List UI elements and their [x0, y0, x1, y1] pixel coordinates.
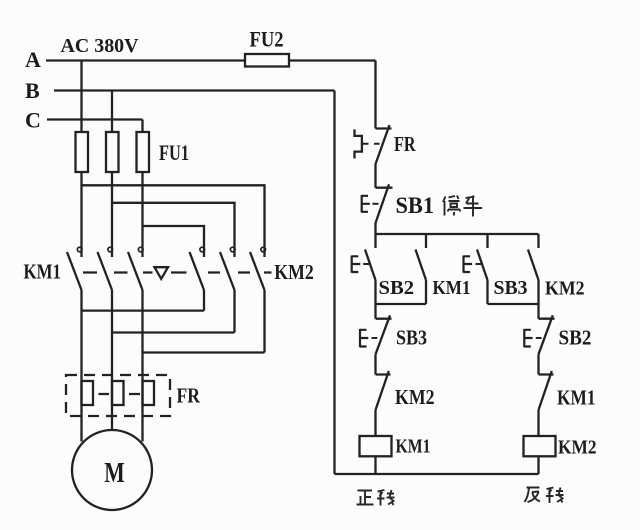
svg-text:KM1: KM1	[557, 386, 596, 410]
svg-text:FU2: FU2	[250, 26, 284, 51]
wire phase 3 contact to motor	[141, 290, 143, 442]
label fanzhuan (reverse) hanzi	[525, 488, 564, 504]
wire bottom rail	[335, 473, 539, 475]
wire SB3 to KM2 interlock	[374, 354, 376, 374]
svg-text:SB3: SB3	[396, 326, 427, 350]
value label SB1	[396, 193, 435, 218]
wire crossover phase2 to KM2 contact 5	[112, 203, 235, 257]
wire control top rail	[376, 233, 539, 235]
svg-text:KM1: KM1	[433, 277, 471, 299]
value label KM2 aux	[545, 278, 585, 300]
wire KM2 contact 6 bottom	[263, 290, 265, 353]
wire phase C drop to FU1	[141, 120, 143, 133]
contactor KM2 main contact 6	[250, 247, 266, 290]
motor M circle	[72, 430, 152, 510]
thermal relay FR inner dashes	[99, 393, 141, 395]
wire KM1 aux drop	[425, 234, 427, 248]
svg-text:KM2: KM2	[558, 437, 597, 459]
svg-text:KM1: KM1	[396, 436, 431, 458]
wire phase A drop to FU1	[80, 61, 82, 133]
contact KM2 interlock (NC)	[376, 371, 391, 410]
pushbutton SB3 (NC) left branch	[360, 315, 392, 354]
contactor KM2 main contact 4	[190, 247, 205, 290]
value label SB2	[379, 277, 415, 299]
node C phase label	[25, 108, 41, 133]
svg-text:FR: FR	[394, 132, 416, 156]
fuse FU1 element 3	[137, 132, 150, 172]
node B phase label	[25, 78, 40, 103]
value label SB3	[494, 277, 528, 299]
fuse FU1 element 1	[76, 132, 89, 172]
wire left branch down	[374, 304, 376, 319]
svg-text:AC 380V: AC 380V	[61, 35, 139, 57]
value label AC 380V	[61, 35, 139, 57]
wire phase 1 contact to motor	[80, 290, 82, 442]
wire left return rail from phase B	[333, 91, 335, 475]
wire junction row contact4 to phase1	[82, 309, 205, 311]
value label KM1 coil	[396, 436, 431, 458]
svg-text:SB3: SB3	[494, 277, 528, 299]
svg-text:B: B	[25, 78, 40, 103]
motor letter M	[104, 458, 125, 489]
wire KM2 contact 5 bottom	[233, 290, 235, 333]
value label KM1 interlock	[557, 386, 596, 410]
thermal relay FR dashed box	[66, 375, 170, 416]
contactor label KM2	[274, 260, 314, 284]
svg-text:C: C	[25, 108, 41, 133]
pushbutton SB2 start (NO)	[352, 250, 376, 305]
thermal relay FR heater 3	[143, 381, 155, 405]
wire crossover phase1 to KM2 contact 6	[82, 185, 265, 257]
wire SB1 to rail	[374, 223, 376, 248]
wire SB3 drop	[486, 234, 488, 248]
pushbutton SB3 start (NO)	[464, 250, 488, 305]
value label KM1 aux	[433, 277, 471, 299]
contactor KM1 main contact 3	[128, 247, 143, 290]
svg-text:FR: FR	[177, 384, 201, 408]
wire pair rail left	[376, 303, 427, 305]
fuse FU1 element 2	[106, 132, 119, 172]
wire junction row contact5 to phase2	[112, 331, 235, 333]
svg-text:KM1: KM1	[24, 260, 62, 284]
label tingche (stop) hanzi	[443, 196, 482, 217]
wire crossover phase3 to KM2 contact 4	[143, 226, 205, 257]
wire pair rail right	[488, 303, 539, 305]
coil KM1	[360, 436, 392, 456]
contactor KM2 main contact 5	[220, 247, 235, 290]
svg-text:KM2: KM2	[545, 278, 585, 300]
fuse FU2	[245, 54, 289, 67]
thermal contact FR (NC)	[355, 125, 392, 164]
svg-text:SB1: SB1	[396, 193, 435, 218]
thermal relay FR heater 1	[82, 381, 94, 405]
contact KM1 interlock (NC)	[539, 371, 554, 410]
node A phase label	[25, 47, 41, 72]
contactor KM1 main contact 1	[67, 247, 82, 290]
wire KM2 aux drop	[537, 234, 539, 248]
wire SB2 to KM1 interlock	[537, 354, 539, 374]
value label SB2 NC	[559, 326, 592, 350]
value label FU1	[159, 140, 189, 165]
contactor KM1 main contact 2	[98, 247, 113, 290]
pushbutton SB1 stop (NC)	[362, 184, 393, 223]
linkage dashed line KM1-KM2	[83, 271, 272, 273]
wire phase B drop to FU1	[111, 91, 113, 133]
svg-text:KM2: KM2	[274, 260, 314, 284]
wire phase 3 below fuse to KM1 contact	[141, 172, 143, 257]
wire phase C horizontal	[47, 118, 143, 120]
value label KM2 interlock	[395, 385, 435, 409]
wire phase 2 below fuse to KM1 contact	[111, 172, 113, 257]
svg-text:KM2: KM2	[395, 385, 435, 409]
pushbutton SB2 (NC) right branch	[524, 315, 554, 354]
svg-text:FU1: FU1	[159, 140, 189, 165]
wire KM1 coil to bottom rail	[374, 456, 376, 474]
wire phase B horizontal	[54, 89, 335, 91]
value label FR control	[394, 132, 416, 156]
label zhengzhuan (forward) hanzi	[357, 490, 395, 506]
wire right branch down	[537, 304, 539, 319]
wire KM2 contact 4 bottom	[203, 290, 205, 311]
svg-text:A: A	[25, 47, 41, 72]
svg-text:SB2: SB2	[559, 326, 592, 350]
wire phase A horizontal	[46, 59, 376, 61]
wire FR to SB1	[374, 164, 376, 188]
wire phase 2 contact to motor	[111, 290, 113, 431]
wire KM1 interlock to coil	[537, 410, 539, 436]
value label FR main	[177, 384, 201, 408]
value label SB3 NC	[396, 326, 427, 350]
coil KM2	[524, 436, 556, 456]
wire control branch from phase A	[374, 61, 376, 129]
wire KM2 interlock to coil	[374, 410, 376, 436]
svg-text:SB2: SB2	[379, 277, 415, 299]
wire KM2 coil to bottom rail	[537, 456, 539, 474]
wire phase 1 below fuse to KM1 contact	[80, 172, 82, 257]
thermal relay FR heater 2	[112, 381, 124, 405]
linkage triangle symbol	[155, 267, 169, 279]
value label FU2	[250, 26, 284, 51]
svg-text:M: M	[104, 458, 125, 489]
wire junction row contact6 to phase3	[143, 351, 265, 353]
contactor label KM1	[24, 260, 62, 284]
value label KM2 coil	[558, 437, 597, 459]
contact KM2 aux (NO)	[528, 250, 539, 305]
contact KM1 aux (NO)	[416, 250, 427, 305]
